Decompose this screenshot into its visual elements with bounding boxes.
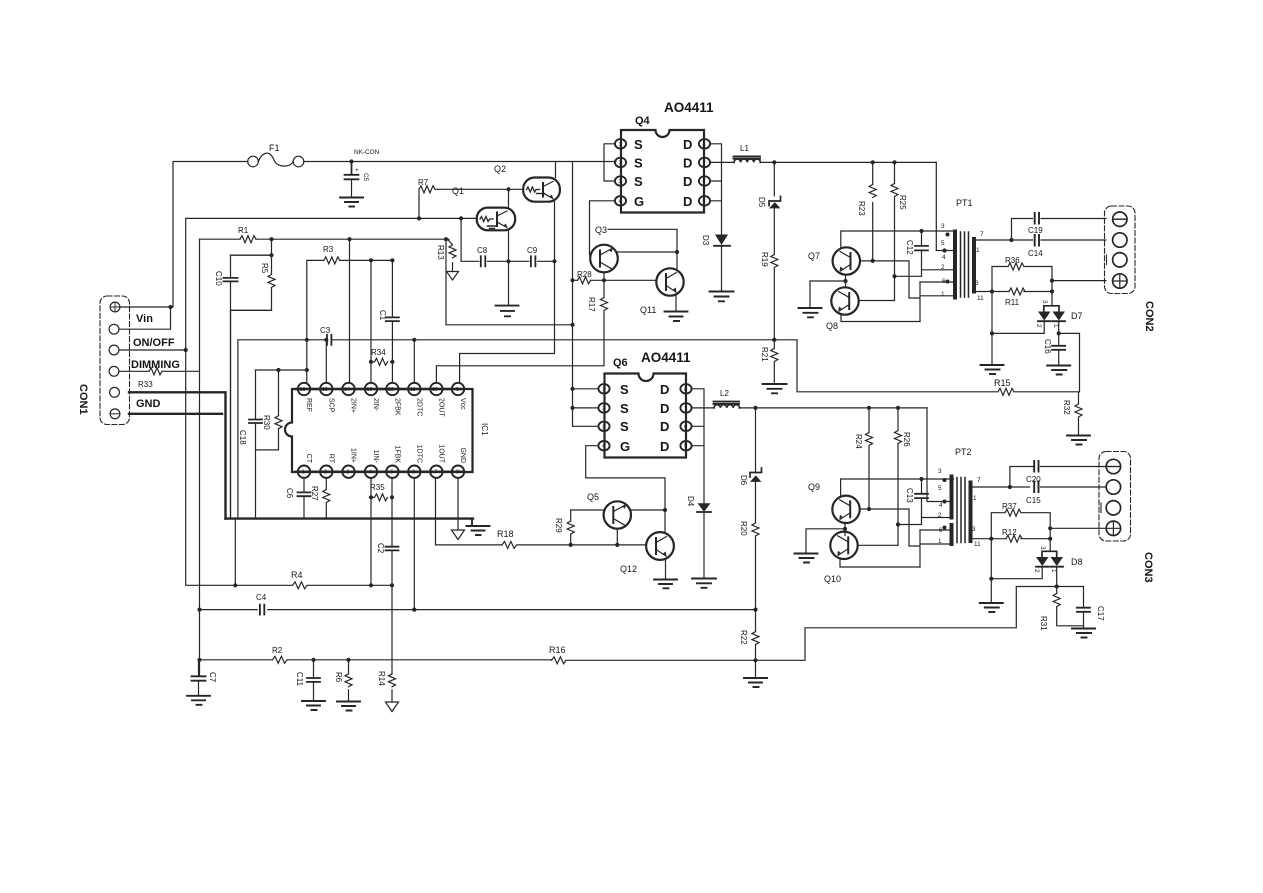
svg-text:7: 7 — [980, 231, 984, 238]
wire Q7 base — [860, 261, 920, 322]
svg-text:1: 1 — [619, 142, 622, 148]
svg-text:Q3: Q3 — [595, 225, 607, 235]
capacitor C2 — [376, 478, 399, 674]
wire Q4 left pins — [590, 144, 615, 255]
svg-text:D: D — [683, 174, 692, 189]
resistor R3 — [307, 245, 393, 383]
svg-text:7: 7 — [977, 477, 981, 484]
svg-text:CON3: CON3 — [1142, 552, 1154, 583]
resistor R29 — [554, 510, 665, 545]
svg-text:Q9: Q9 — [808, 482, 820, 492]
svg-text:1: 1 — [1052, 324, 1059, 328]
junction — [324, 338, 776, 342]
svg-text:3: 3 — [602, 424, 605, 430]
capacitor C7 — [192, 660, 218, 695]
resistor R34 — [371, 348, 392, 365]
wire Q2 column — [460, 162, 556, 383]
junction — [772, 338, 776, 342]
svg-text:Q8: Q8 — [826, 321, 838, 331]
resistor R25 — [891, 162, 907, 300]
wire PT2 gnd column — [990, 539, 992, 603]
svg-text:3: 3 — [1041, 300, 1048, 304]
svg-text:C6: C6 — [285, 488, 294, 499]
svg-text:Vcc: Vcc — [459, 398, 466, 410]
wire Q5 emitter — [616, 529, 618, 545]
wire Q1 collector — [508, 189, 510, 304]
wire C19 branch — [1012, 219, 1107, 241]
wire Q4 right pins to D bus — [710, 144, 733, 234]
wire Q7 collector to PT1 pin3 — [841, 231, 954, 248]
svg-text:AO4411: AO4411 — [664, 100, 714, 115]
svg-text:IC1: IC1 — [480, 423, 489, 436]
resistor R21 — [760, 340, 778, 383]
svg-text:1: 1 — [973, 495, 977, 502]
svg-text:D: D — [660, 439, 669, 454]
resistor R28 — [577, 270, 592, 284]
svg-text:5: 5 — [938, 485, 942, 492]
junction — [896, 522, 900, 526]
junction — [184, 348, 395, 588]
svg-text:L1: L1 — [740, 144, 749, 153]
svg-text:R25: R25 — [898, 195, 907, 210]
svg-text:2: 2 — [619, 160, 622, 166]
resistor R11 — [1005, 288, 1025, 307]
svg-text:D5: D5 — [757, 197, 766, 208]
svg-text:11: 11 — [974, 541, 981, 548]
capacitor C15 — [1026, 482, 1041, 506]
capacitor C9 — [527, 246, 538, 266]
svg-text:+: + — [355, 167, 359, 174]
svg-text:Q4: Q4 — [635, 115, 651, 127]
svg-text:C4: C4 — [256, 593, 267, 602]
junction — [305, 258, 395, 372]
junction — [989, 537, 1052, 541]
mosfet Q4 AO4411 — [615, 100, 714, 213]
wire C13 R26 link — [898, 518, 922, 525]
wire D7 anode left — [992, 321, 1044, 333]
wire GND pins — [129, 392, 226, 518]
wire R28 to Q11 base — [573, 279, 657, 281]
resistor R4 — [186, 350, 392, 589]
svg-text:R30: R30 — [262, 415, 271, 430]
wire R7 to Q2 — [436, 188, 523, 190]
ground — [340, 198, 363, 207]
junction — [349, 159, 353, 163]
svg-text:4: 4 — [939, 502, 943, 509]
junction — [871, 259, 875, 263]
resistor R30 — [256, 370, 307, 519]
svg-text:6: 6 — [703, 179, 706, 185]
svg-text:11: 11 — [977, 295, 984, 302]
svg-text:3: 3 — [938, 468, 942, 475]
resistor R36 — [992, 256, 1052, 306]
svg-text:R34: R34 — [371, 348, 386, 357]
junction — [197, 608, 757, 612]
resistor R24 — [854, 408, 873, 509]
ground — [187, 696, 210, 705]
wire Q8 base — [859, 300, 895, 302]
svg-text:GND: GND — [136, 398, 161, 410]
svg-text:1DTC: 1DTC — [415, 445, 422, 463]
wire ON/OFF net — [119, 218, 476, 350]
svg-text:6: 6 — [939, 527, 943, 534]
wire PT2 pin11 line — [973, 538, 1051, 540]
capacitor C20 — [1026, 461, 1041, 484]
svg-text:Q5: Q5 — [587, 492, 599, 502]
svg-text:D8: D8 — [1071, 557, 1083, 567]
svg-text:PT1: PT1 — [956, 198, 973, 208]
svg-text:3: 3 — [619, 179, 622, 185]
wire R1 line — [200, 239, 573, 325]
svg-text:D: D — [683, 194, 692, 209]
junction — [1055, 584, 1059, 588]
wire PT2 pin7 line — [973, 486, 1107, 488]
svg-text:ON/OFF: ON/OFF — [133, 337, 175, 349]
svg-text:S: S — [634, 137, 643, 152]
svg-text:2: 2 — [938, 512, 942, 519]
ground — [980, 603, 1003, 612]
resistor R33 — [138, 368, 162, 389]
svg-text:2: 2 — [941, 264, 945, 271]
svg-text:4: 4 — [942, 254, 946, 261]
svg-text:R3: R3 — [323, 245, 334, 254]
svg-text:5: 5 — [684, 444, 687, 450]
diode D6 — [739, 408, 762, 486]
junction — [1009, 238, 1013, 242]
wire C20 branch — [1010, 467, 1106, 488]
svg-text:2: 2 — [1033, 569, 1040, 573]
resistor R35 — [370, 478, 392, 585]
inductor L1 — [734, 144, 761, 162]
svg-text:SCP: SCP — [327, 398, 334, 413]
ic IC1 — [285, 389, 489, 472]
resistor R37 — [991, 502, 1050, 551]
wire PT1 pin11 line — [976, 291, 1052, 293]
svg-text:1IN-: 1IN- — [372, 450, 379, 464]
svg-text:R6: R6 — [334, 672, 343, 683]
svg-text:R27: R27 — [310, 486, 319, 501]
junction — [269, 237, 448, 257]
svg-text:Q10: Q10 — [824, 574, 841, 584]
transformer PT2 — [938, 447, 981, 548]
junction — [989, 577, 993, 581]
ground — [744, 678, 767, 687]
mosfet Q6 AO4411 — [598, 350, 691, 458]
svg-text:R18: R18 — [497, 529, 514, 539]
ground — [665, 312, 688, 322]
capacitor C19 — [1028, 213, 1043, 235]
svg-text:R28: R28 — [577, 270, 592, 279]
ground — [763, 384, 787, 393]
junction — [1050, 279, 1054, 283]
diode D8 — [1033, 546, 1083, 573]
junction — [892, 274, 896, 278]
svg-text:R26: R26 — [902, 432, 911, 447]
ground — [496, 306, 519, 317]
svg-text:9: 9 — [456, 387, 459, 393]
transistor Q10 — [824, 532, 858, 584]
wire R16 line to PT2 — [756, 587, 1017, 661]
svg-text:CON2: CON2 — [1143, 301, 1155, 332]
svg-text:D: D — [660, 419, 669, 434]
junction — [663, 508, 667, 512]
resistor R7 — [418, 178, 435, 218]
svg-text:D: D — [660, 401, 669, 416]
wire L1 switch rail — [760, 161, 936, 163]
capacitor C11 — [295, 660, 320, 700]
svg-text:R36: R36 — [1005, 256, 1020, 265]
svg-text:R15: R15 — [994, 378, 1011, 388]
capacitor C8 — [477, 246, 488, 266]
ground — [799, 308, 822, 317]
wire Q6 right pins to D bus — [692, 389, 714, 503]
svg-text:2: 2 — [602, 406, 605, 412]
svg-text:1: 1 — [1050, 569, 1057, 573]
transistor Q1 — [477, 208, 516, 231]
wire Vin rail vertical — [572, 162, 574, 427]
svg-text:R12: R12 — [1002, 528, 1017, 537]
svg-text:4: 4 — [369, 470, 372, 476]
svg-text:S: S — [620, 401, 629, 416]
wire Q10 emitter rail — [840, 559, 920, 567]
inductor L2 — [714, 389, 740, 408]
wire Q9 base — [860, 509, 920, 567]
junction — [197, 658, 757, 663]
svg-text:C2: C2 — [376, 543, 385, 554]
resistor R27 — [310, 478, 330, 519]
svg-text:2: 2 — [1035, 324, 1042, 328]
ground — [1072, 629, 1095, 638]
svg-text:1: 1 — [938, 538, 942, 545]
svg-text:R31: R31 — [1039, 616, 1048, 631]
svg-text:8: 8 — [684, 387, 687, 393]
resistor R32 — [1062, 392, 1082, 435]
wire Q12 emitter — [665, 559, 667, 579]
transistor Q9 — [832, 496, 859, 523]
svg-text:R33: R33 — [138, 380, 153, 389]
capacitor C5 — [345, 162, 370, 197]
wire 2IN+ column — [349, 239, 351, 383]
wire Q8 emitter rail — [841, 315, 920, 322]
svg-text:16: 16 — [300, 387, 306, 393]
junction — [990, 289, 1054, 293]
svg-text:7: 7 — [703, 160, 706, 166]
svg-text:R29: R29 — [554, 518, 563, 533]
svg-text:1FBK: 1FBK — [393, 445, 400, 463]
capacitor C12 — [905, 231, 928, 270]
transformer PT1 — [941, 198, 984, 302]
open ground — [447, 272, 459, 281]
ground — [795, 554, 818, 563]
svg-text:R17: R17 — [587, 297, 596, 312]
svg-text:C18: C18 — [238, 430, 247, 445]
wire 1OUT line — [436, 478, 647, 545]
wire Q11 emitter — [675, 295, 677, 312]
svg-text:D: D — [660, 382, 669, 397]
svg-text:C12: C12 — [905, 240, 914, 255]
wire PT2 feed — [927, 408, 951, 502]
wire 2IN- column — [370, 260, 372, 382]
wire DIMMING net — [119, 239, 200, 675]
wire Q7 Q8 emitter link — [810, 275, 846, 307]
transistor Q5 — [604, 501, 631, 528]
resistor R31 — [1039, 587, 1084, 632]
wire D4 to ground — [703, 512, 705, 578]
svg-text:L2: L2 — [720, 389, 729, 398]
svg-text:13: 13 — [367, 387, 373, 393]
transistor Q8 — [826, 287, 859, 331]
wire C12 R25 link — [895, 270, 922, 277]
wire PT2 primary pins — [920, 518, 951, 545]
wire CON2 pin4 line — [1052, 280, 1106, 282]
wire Q10 base — [858, 544, 898, 546]
svg-text:G: G — [634, 194, 644, 209]
junction — [369, 360, 395, 364]
ic IC1 bottom pins — [298, 444, 466, 478]
svg-text:11: 11 — [410, 387, 415, 393]
svg-text:Q7: Q7 — [808, 251, 820, 261]
svg-text:C19: C19 — [1028, 226, 1043, 235]
svg-text:C20: C20 — [1026, 475, 1041, 484]
svg-text:S: S — [634, 156, 643, 171]
connector CON1 — [100, 296, 130, 425]
svg-text:Q6: Q6 — [613, 357, 628, 369]
junction — [919, 477, 923, 481]
svg-text:R23: R23 — [857, 201, 866, 216]
svg-text:C15: C15 — [1026, 496, 1041, 505]
svg-text:6: 6 — [942, 278, 946, 285]
transistor Q11 — [640, 268, 684, 315]
svg-text:7: 7 — [434, 470, 437, 476]
wire L2 switch rail — [739, 407, 927, 409]
wire C3 2DTC line — [238, 340, 797, 519]
svg-text:AO4411: AO4411 — [641, 350, 691, 365]
svg-text:C5: C5 — [362, 173, 369, 182]
resistor R6 — [334, 660, 352, 701]
svg-text:S: S — [620, 382, 629, 397]
svg-text:C14: C14 — [1028, 249, 1043, 258]
wire 2OUT line — [436, 366, 603, 383]
capacitor C17 — [1077, 587, 1105, 628]
junction — [417, 187, 511, 220]
svg-text:NK-CON: NK-CON — [354, 149, 380, 156]
wire D8 cathode right — [1016, 567, 1083, 587]
svg-text:D: D — [683, 137, 692, 152]
wire 2DTC column — [413, 340, 415, 383]
wire D3 to ground — [721, 246, 723, 291]
svg-text:D4: D4 — [686, 496, 695, 507]
svg-text:C3: C3 — [320, 326, 331, 335]
svg-text:D3: D3 — [701, 235, 710, 246]
ground — [302, 701, 325, 710]
svg-text:3: 3 — [347, 470, 350, 476]
svg-text:R32: R32 — [1062, 400, 1071, 415]
svg-text:14: 14 — [344, 387, 350, 393]
wire CON3 pin4 line — [1050, 527, 1106, 529]
resistor R5 — [260, 239, 275, 310]
wire D8 anode left — [991, 567, 1042, 579]
svg-text:C13: C13 — [905, 488, 914, 503]
resistor R20 — [739, 482, 759, 610]
ground — [1067, 436, 1090, 445]
resistor R12 — [1002, 528, 1022, 542]
svg-text:RT: RT — [327, 454, 334, 464]
svg-text:12: 12 — [388, 387, 394, 393]
wire PT1 primary pins — [920, 270, 954, 296]
wire Q9 Q10 emitter link — [806, 523, 845, 553]
svg-text:5: 5 — [941, 240, 945, 247]
svg-text:3: 3 — [975, 280, 979, 287]
junction — [753, 406, 900, 410]
svg-text:1: 1 — [976, 247, 980, 254]
junction — [506, 259, 556, 263]
wire PT1 pin7 line — [976, 239, 1106, 241]
svg-text:F1: F1 — [269, 143, 280, 153]
svg-text:C1: C1 — [378, 310, 387, 321]
wire Q6 left pins — [573, 389, 666, 533]
diode D5 — [757, 162, 781, 208]
wire SCP column — [325, 340, 327, 383]
svg-text:R22: R22 — [739, 630, 748, 645]
junction — [1057, 331, 1061, 335]
resistor R16 — [549, 645, 756, 664]
capacitor C13 — [905, 479, 928, 518]
junction — [369, 495, 394, 499]
svg-text:8: 8 — [456, 470, 459, 476]
junction — [675, 250, 679, 254]
connector CON2 — [1105, 206, 1136, 294]
svg-text:Q1: Q1 — [452, 186, 464, 196]
capacitor C6 — [285, 478, 311, 519]
fuse F1 — [248, 153, 304, 167]
ground — [692, 579, 716, 588]
svg-text:10: 10 — [432, 387, 438, 393]
ground — [1047, 366, 1070, 375]
svg-text:D6: D6 — [739, 475, 748, 486]
svg-text:PT2: PT2 — [955, 447, 972, 457]
svg-text:R16: R16 — [549, 645, 566, 655]
svg-text:C17: C17 — [1096, 606, 1105, 621]
resistor R23 — [857, 162, 876, 261]
wire GND bus — [226, 517, 474, 519]
svg-text:C8: C8 — [477, 246, 488, 255]
svg-text:2IN+: 2IN+ — [350, 398, 357, 413]
ground — [467, 519, 490, 535]
svg-text:R4: R4 — [291, 570, 303, 580]
open ground — [452, 530, 465, 540]
svg-text:4: 4 — [602, 444, 605, 450]
svg-text:D: D — [683, 156, 692, 171]
svg-text:C16: C16 — [1043, 339, 1052, 354]
capacitor C10 — [214, 255, 238, 310]
svg-text:CT: CT — [305, 454, 312, 464]
svg-text:R19: R19 — [760, 252, 769, 267]
svg-text:1: 1 — [602, 387, 605, 393]
svg-text:3: 3 — [941, 223, 945, 230]
svg-text:S: S — [634, 174, 643, 189]
svg-text:S: S — [620, 419, 629, 434]
svg-text:R20: R20 — [739, 521, 748, 536]
wire GND pin8 — [457, 478, 459, 530]
capacitor C16 — [1043, 339, 1065, 365]
svg-text:R21: R21 — [760, 347, 769, 362]
svg-text:2FBK: 2FBK — [393, 398, 400, 416]
svg-text:GND: GND — [459, 447, 466, 463]
svg-text:D7: D7 — [1071, 311, 1083, 321]
resistor R2 — [199, 646, 552, 663]
svg-text:2DTC: 2DTC — [415, 398, 422, 416]
resistor R1 — [238, 226, 256, 243]
